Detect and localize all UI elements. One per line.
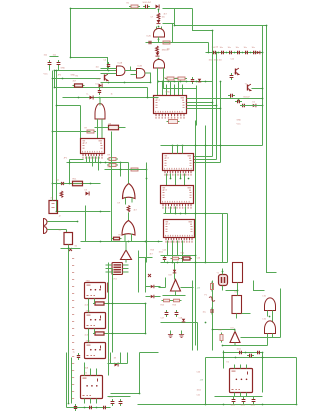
capacitor C24 row [243, 51, 250, 54]
wire net N17 IC1 r2 [187, 102, 213, 104]
svg-text:IC8: IC8 [169, 275, 173, 277]
connector J1 [49, 201, 58, 214]
svg-text:LL: LL [87, 94, 90, 96]
svg-text:100n 100n 10n: 100n 100n 10n [209, 60, 222, 62]
wire C1 stub [50, 67, 59, 71]
svg-text:IC6: IC6 [164, 190, 168, 192]
wire jack out [48, 222, 78, 233]
junction or [100, 241, 160, 243]
wire net N3 drop x80 [80, 106, 82, 139]
buffer U7 [121, 250, 132, 260]
ground GND2 [179, 331, 184, 338]
wire net N43 corner [254, 281, 265, 291]
svg-text:100n: 100n [237, 349, 241, 351]
wire net N35 x222 [222, 214, 224, 263]
junction y169 [120, 169, 148, 171]
wire net N20b y78 [53, 78, 101, 80]
svg-text:10n: 10n [244, 47, 247, 49]
svg-text:10n: 10n [252, 47, 255, 49]
wire net N26 y211 [57, 211, 111, 213]
resistor R20b zigzag [157, 13, 160, 20]
svg-text:K1: K1 [85, 373, 88, 375]
capacitor C28 [237, 351, 244, 354]
svg-text:10k: 10k [162, 17, 165, 19]
wire net x52 to J1 [52, 197, 54, 201]
wire net N60 x296 [296, 358, 298, 405]
wire net N5 chain top [158, 10, 160, 13]
wire net y105 [241, 105, 263, 107]
wire net N21 y97 [63, 97, 159, 99]
wire net N2 horizontal y70 [55, 70, 117, 72]
svg-text:R14: R14 [181, 253, 186, 255]
wire net N58 x223 [223, 351, 225, 369]
svg-text:4k7: 4k7 [164, 14, 168, 16]
wire LS1 legs [268, 311, 273, 323]
wire net N1 to x107 [71, 58, 108, 71]
capacitor C31 [232, 397, 236, 404]
svg-text:R7: R7 [85, 128, 88, 130]
IC U11 74HC4094 [164, 220, 195, 242]
AND gate U3A [117, 66, 126, 76]
svg-text:S2: S2 [75, 246, 78, 248]
diode D12 [151, 295, 154, 299]
svg-text:R15: R15 [161, 305, 166, 307]
capacitor C29 [247, 354, 254, 357]
wire U6A in down [126, 198, 133, 205]
svg-text:IC1P: IC1P [97, 79, 102, 81]
junction x146 [146, 178, 148, 243]
wire LS2 legs [268, 334, 273, 341]
svg-text:10n: 10n [220, 47, 223, 49]
op-amp U12 [171, 280, 181, 292]
wire U6B in down [125, 234, 132, 242]
svg-text:VCC: VCC [44, 74, 49, 76]
svg-text:10u: 10u [203, 312, 206, 314]
junction top-left dots [52, 8, 101, 185]
wire net N50 left rails [67, 353, 72, 408]
resistor R9 zigzag [60, 191, 63, 198]
transducer LS1 dome [265, 298, 276, 311]
svg-text:100n: 100n [197, 390, 201, 392]
junction loop [108, 303, 147, 335]
resistor R22 below U1 [167, 120, 180, 124]
AND gate U2A dome [154, 28, 165, 37]
svg-text:LS1: LS1 [263, 296, 267, 298]
junction gates [108, 70, 152, 84]
relay K5 [230, 369, 253, 393]
resistor RN3 sip [93, 332, 106, 335]
svg-text:IC5: IC5 [166, 158, 170, 160]
wire net N16 IC1 r1 [187, 98, 263, 100]
wire U3A out to U3B [125, 67, 137, 75]
wire D11 ties [146, 287, 161, 297]
svg-text:R13: R13 [151, 250, 156, 252]
junction chain [158, 9, 160, 83]
wire net y345 [223, 343, 253, 346]
wire net N30 x205 long [205, 126, 207, 263]
junction rm [205, 322, 236, 347]
diode D1 [156, 5, 160, 9]
wire net N49 y407 [67, 407, 111, 409]
wire K4 pins top [85, 363, 97, 376]
wire U5 pins down [87, 157, 99, 171]
IC U10 74HC4094 [161, 186, 194, 208]
diode D11 [151, 285, 154, 289]
relay K2 [85, 313, 106, 329]
capacitor C11 [175, 310, 179, 317]
capacitor C32 [242, 397, 246, 404]
wire net left rail long [68, 253, 70, 404]
wire net N13 x208 [208, 43, 210, 53]
ground GND1 [168, 331, 173, 338]
capacitor C25 row [251, 51, 258, 54]
wire U7 stem [125, 242, 127, 263]
svg-text:D9: D9 [118, 203, 121, 205]
svg-text:100n: 100n [231, 405, 235, 407]
svg-text:10n: 10n [236, 47, 239, 49]
capacitor C27 [240, 104, 247, 107]
wire net N4 left rail x52 [52, 71, 54, 201]
IC U13A rect [233, 263, 243, 283]
wire net N52 frame [111, 353, 159, 394]
resistor R6b [129, 168, 140, 171]
relay K4 [81, 376, 103, 399]
wire net N57 x205 [205, 358, 207, 405]
connector jack pin B [44, 227, 48, 234]
capacitor C10 [165, 310, 169, 317]
wire net N36 x227 [227, 214, 229, 263]
wire net x111 [111, 132, 113, 242]
wire net y248 [61, 248, 81, 250]
op-amp U14 [230, 332, 240, 343]
svg-text:C10: C10 [215, 47, 220, 49]
resistor R10 [112, 237, 122, 240]
svg-text:JP1: JP1 [64, 158, 68, 160]
svg-text:C17: C17 [161, 318, 166, 320]
wire net N46 x108 [108, 263, 110, 376]
resistor RN2 sip [93, 302, 106, 305]
svg-text:R2: R2 [76, 76, 79, 78]
svg-text:D3: D3 [85, 190, 88, 192]
wire net N2 drop x54 [54, 71, 56, 88]
wire net N19 bend x220 [194, 82, 221, 163]
wire net N11 x266 long drop [267, 26, 277, 273]
wire net x146 [146, 163, 148, 263]
crystal X3 [148, 274, 151, 277]
wire net N25 y183 [53, 183, 101, 185]
wire net x120 drop [120, 163, 122, 177]
junction midleft [54, 87, 149, 99]
svg-text:R11: R11 [73, 179, 78, 181]
capacitor C19 [147, 41, 154, 44]
svg-text:100n: 100n [251, 405, 255, 407]
OR gate U6A [123, 184, 136, 199]
junction bl [68, 403, 98, 409]
junction u5 [69, 162, 122, 164]
capacitor C5 [235, 100, 242, 103]
transducer LS2 dome [265, 321, 276, 334]
wire net N22 y82 [101, 82, 151, 84]
resistor R14 [172, 299, 182, 302]
wire net N19 bend x216 [194, 53, 217, 160]
wire U4 out stem up [99, 98, 101, 106]
svg-text:JP2: JP2 [58, 75, 62, 77]
svg-text:LS2: LS2 [263, 319, 267, 321]
svg-text:C16: C16 [197, 258, 202, 260]
wire net N56 y357 [206, 357, 297, 359]
diode D14 [173, 270, 177, 273]
wire net N28 y257 [139, 257, 153, 259]
svg-text:GND: GND [61, 68, 66, 70]
wire net N37 y295 [163, 295, 186, 297]
resistor R18 [129, 5, 140, 8]
wire net N38 y322 [161, 322, 198, 324]
capacitor C21 row [219, 51, 226, 54]
wire net N21 corner [147, 88, 149, 98]
wire net N34 y262 [161, 262, 206, 264]
svg-text:10n: 10n [44, 55, 48, 57]
svg-text:Q1: Q1 [57, 180, 61, 182]
svg-text:IC7: IC7 [167, 224, 171, 226]
svg-text:K2: K2 [227, 362, 230, 364]
wire switch down [68, 245, 70, 253]
wire U6 link [128, 213, 130, 221]
svg-text:GND: GND [166, 92, 171, 94]
connector jack pin A [44, 219, 48, 226]
wire net N32 y213 [164, 213, 211, 215]
capacitor C17 [119, 399, 123, 406]
svg-text:R16: R16 [173, 305, 178, 307]
wire net N54 y404 long [138, 404, 297, 406]
resistor R13 [162, 299, 172, 302]
resistor R21 zigzag [127, 206, 130, 213]
wire net N1 top horizontal [71, 8, 156, 10]
capacitor C16 [111, 399, 115, 406]
wire net N53 y396 [108, 396, 131, 398]
wire net y169 [105, 169, 147, 171]
bar component [107, 283, 109, 293]
wire net N10 x174 [174, 9, 176, 26]
resistor R11 [181, 257, 192, 260]
junction u13 [237, 290, 239, 292]
svg-text:R9: R9 [108, 155, 111, 157]
junction y1 [222, 271, 224, 273]
diode D4 [257, 51, 260, 55]
capacitor C33 [252, 397, 256, 404]
wire net N51 [108, 353, 128, 364]
resistor R8 box [71, 181, 85, 186]
svg-text:16A: 16A [85, 367, 89, 370]
wire net N27 y241 [81, 241, 163, 243]
wire net N3 branch y105 [57, 105, 81, 107]
capacitor C6 [230, 73, 234, 80]
resistor R20 zigzag [156, 46, 159, 52]
svg-text:IC2B: IC2B [138, 66, 143, 68]
svg-text:+5V: +5V [197, 288, 201, 290]
IC U13B rect [232, 296, 242, 314]
capacitor C13 [74, 404, 77, 411]
junction left2 [56, 211, 102, 213]
svg-text:OK1: OK1 [113, 279, 118, 281]
IC U1 74HC165 [154, 96, 187, 118]
svg-text:IC1: IC1 [157, 100, 161, 102]
wire U3B out [145, 73, 151, 83]
wire net N18 IC1 r3 [187, 105, 217, 107]
wire net N7 y23 [163, 23, 175, 25]
wire net N24 y162 [67, 160, 129, 184]
svg-text:10n: 10n [228, 47, 231, 49]
wire U3A in [101, 69, 117, 74]
svg-text:4k7: 4k7 [73, 81, 77, 83]
IC U5 driver [81, 139, 105, 158]
svg-text:IC4: IC4 [84, 143, 88, 145]
wire net N41 x212 [212, 281, 214, 351]
wire K4 pins bottom [85, 399, 97, 404]
diode D13 [115, 363, 119, 367]
svg-text:C4: C4 [104, 60, 107, 62]
diode D2 [157, 20, 161, 24]
IC U9 74HC4094 [163, 154, 194, 175]
resistor R16 rail [211, 282, 214, 292]
AND gate U3B [137, 69, 146, 79]
capacitor C8 [107, 62, 110, 69]
svg-text:+5V: +5V [200, 380, 204, 382]
relay K3 [85, 343, 106, 359]
svg-text:R1: R1 [127, 3, 130, 5]
svg-text:C15: C15 [163, 250, 168, 252]
svg-text:1k: 1k [111, 94, 113, 96]
svg-text:4k7: 4k7 [150, 254, 154, 256]
wire net N19 bend x212 [194, 31, 213, 157]
wire U12 stem [159, 263, 194, 296]
wire U6A out up [128, 163, 130, 184]
crystal X1 [61, 182, 64, 185]
fuse F1 [209, 297, 215, 301]
capacitor C12 [210, 307, 214, 314]
capacitor C14 [87, 406, 94, 409]
capacitor C20 row [211, 51, 218, 54]
wire net N16 caps stub [231, 96, 239, 102]
wire net N3 drop x56 [56, 71, 58, 212]
junction between [170, 178, 190, 180]
wire net N42 y329 [213, 330, 236, 332]
OR gate U6B [122, 221, 135, 236]
svg-text:100n: 100n [241, 405, 245, 407]
wire net x145b [145, 258, 147, 293]
svg-text:C12: C12 [231, 59, 236, 61]
wire net N9 y8 right [163, 8, 193, 10]
junction bm [139, 393, 298, 406]
svg-text:IC2D: IC2D [147, 36, 152, 38]
wire net N6 corner x172 [172, 24, 174, 43]
transistor Q2 [236, 68, 239, 75]
wire U9 top pins [173, 146, 183, 154]
wire net N15 y88 [178, 86, 197, 126]
diode D6 [198, 79, 202, 82]
wire net N40 x197 [197, 323, 199, 351]
wire net N6 y42 [146, 42, 209, 44]
wire U4 in pins down [98, 119, 103, 139]
wire U10 bottom pins [166, 207, 186, 214]
diode D10 [182, 319, 186, 322]
svg-text:C20: C20 [197, 372, 202, 374]
svg-text:D1: D1 [96, 84, 99, 86]
svg-text:1N: 1N [114, 358, 117, 360]
relay K1 [85, 283, 106, 299]
transistor Q1 [248, 84, 251, 91]
capacitor C22 row [227, 51, 234, 54]
wire net N61 y396 [215, 396, 263, 398]
cable dashes [72, 259, 74, 399]
connector J1 pins [52, 204, 55, 208]
wire net N20 y87 [55, 87, 148, 89]
wire net N14 y81 [159, 81, 213, 83]
svg-text:F1: F1 [205, 295, 208, 297]
resistor R15 [220, 333, 223, 343]
resistor R3 [73, 84, 85, 87]
wire U9 bottom nets [167, 174, 185, 186]
wire net N23 y131 [53, 131, 91, 133]
svg-text:C21: C21 [197, 395, 202, 397]
capacitor C18 [143, 5, 150, 9]
wire net N39 x192 [192, 281, 194, 351]
crystal Y1 cylinder [219, 275, 228, 286]
junction br [223, 352, 264, 359]
junction top-right [174, 25, 268, 54]
wire net N29 x195 long [195, 121, 197, 346]
wire dome2 out [158, 68, 164, 96]
resistor R1 [165, 77, 176, 80]
wire net N1 vertical left [70, 9, 72, 58]
svg-text:X1: X1 [51, 198, 54, 200]
capacitor C7 [98, 88, 101, 95]
wire IC1 top pins [163, 82, 183, 96]
diode D7 [99, 84, 103, 88]
capacitor C30 [255, 351, 262, 354]
wire net N8 x163 down [164, 76, 178, 89]
capacitor C4 [228, 94, 235, 97]
svg-text:4k7: 4k7 [134, 210, 138, 212]
wire net N44 x280 [241, 289, 281, 338]
wire net N59 x262 [262, 353, 264, 393]
junction y213 [175, 213, 207, 215]
wire net x85 [85, 206, 87, 242]
wire net N55 y352 [224, 352, 263, 354]
svg-text:VCC: VCC [237, 124, 242, 126]
transistor Q3 [105, 74, 108, 81]
wire Y1 stubs [222, 269, 224, 291]
junction left [69, 183, 92, 185]
junction cluster [167, 255, 207, 264]
wire net N48 loop [106, 304, 146, 334]
svg-text:D5: D5 [109, 360, 112, 362]
wire R5 tie [95, 127, 126, 129]
wire net N11 y25 long [175, 25, 267, 27]
switch S1 [64, 233, 73, 245]
resistor R19 [161, 41, 172, 44]
wire K1 K2 links [89, 299, 95, 343]
resistor R5 box [107, 125, 121, 130]
diode D5 [253, 104, 256, 108]
junction domes [269, 316, 271, 318]
diode D8 [90, 96, 94, 100]
crystal X2 [69, 248, 72, 251]
capacitor C23 row [235, 51, 242, 54]
svg-text:SG1 4k7: SG1 4k7 [143, 2, 152, 4]
diode D3 [156, 53, 160, 57]
wire net N12 x262 [262, 26, 264, 146]
svg-text:10k: 10k [167, 49, 170, 51]
